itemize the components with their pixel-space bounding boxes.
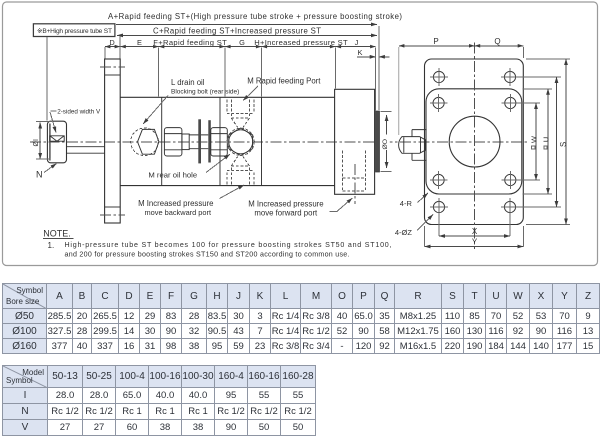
washer 1 (182, 134, 189, 150)
separator disc 2 (208, 120, 211, 162)
svg-text:E: E (137, 38, 142, 47)
hex bolt head (left) (138, 129, 159, 154)
chained dimension arrowheads (105, 45, 111, 49)
svg-text:G: G (239, 38, 245, 47)
dimension line A (116, 23, 377, 25)
rear view: vertical centerline (474, 43, 476, 250)
increased pressure forward port passage (dashed, block) (343, 151, 366, 192)
dimension line K (357, 56, 376, 58)
dimension line C (117, 34, 377, 36)
svg-text:ØO: ØO (382, 139, 389, 150)
svg-text:A+Rapid feeding ST+(High press: A+Rapid feeding ST+(High pressure tube s… (108, 12, 402, 21)
svg-text:J: J (355, 38, 359, 47)
svg-text:M Increased pressure: M Increased pressure (138, 199, 213, 208)
main horizontal centerline (30, 141, 528, 143)
8 bolt holes with crosshairs (433, 71, 444, 82)
svg-text:H+Increased pressure ST: H+Increased pressure ST (254, 38, 348, 47)
cylinder body outline (120, 97, 334, 185)
svg-text:2-sided width V: 2-sided width V (57, 109, 101, 116)
increased pressure backward port passage (dashed, bottom) (227, 157, 254, 185)
nut 2 (211, 128, 228, 156)
svg-text:M rear oil hole: M rear oil hole (148, 171, 197, 180)
svg-text:W: W (529, 136, 538, 143)
extension line for P (left) (398, 47, 400, 135)
drawing border frame (3, 2, 598, 266)
dimension phi-O (386, 115, 388, 168)
svg-text:P: P (433, 37, 438, 46)
dimension W (inner hole rows) (519, 102, 541, 104)
svg-text:X: X (472, 227, 478, 236)
svg-text:NOTE.: NOTE. (43, 228, 71, 238)
svg-text:Blocking bolt (rear side): Blocking bolt (rear side) (171, 88, 239, 95)
separator disc 1 (198, 119, 201, 163)
dimension (outer hole rows) (519, 76, 562, 78)
svg-text:C+Rapid feeding ST+Increased p: C+Rapid feeding ST+Increased pressure ST (153, 26, 321, 35)
svg-text:Y: Y (472, 238, 478, 247)
dimension phi-I (39, 123, 41, 160)
body section lines (162, 97, 262, 185)
rod end nut (2-sided width V) (47, 121, 66, 163)
center bore circle (449, 116, 500, 167)
dimension X (438, 214, 440, 236)
svg-text:move backward port: move backward port (145, 208, 212, 217)
svg-text:Q: Q (494, 37, 500, 46)
svg-text:1.: 1. (48, 241, 55, 250)
rear oil hole bolt (circle+hex) (229, 130, 253, 154)
svg-text:K: K (358, 48, 363, 57)
dimension P Q (399, 45, 524, 47)
drain bolt recess (dashed circle, left) (131, 128, 159, 156)
rear view: outer flange plate (425, 59, 524, 225)
dimension Y (424, 226, 426, 247)
rear port fitting (hex, side view) (412, 130, 427, 161)
svg-text:N: N (36, 170, 43, 180)
svg-text:4-ØZ: 4-ØZ (395, 228, 413, 237)
svg-text:M Increased pressure: M Increased pressure (248, 200, 323, 209)
label box B: high pressure tube ST (33, 24, 115, 37)
dimension U (inner plate) (523, 88, 553, 90)
svg-text:move forward port: move forward port (254, 209, 318, 218)
high pressure tube flange plate (376, 111, 380, 172)
rear booster block (335, 89, 375, 194)
chamfer mark on rod nut (50, 136, 64, 141)
svg-text:High-pressure tube ST becomes: High-pressure tube ST becomes 100 for pr… (65, 241, 392, 249)
svg-text:※B+High pressure tube ST: ※B+High pressure tube ST (37, 28, 112, 35)
svg-text:4-R: 4-R (400, 199, 413, 208)
svg-text:U: U (542, 137, 551, 142)
svg-text:F+Rapid feeding ST: F+Rapid feeding ST (153, 38, 227, 47)
svg-text:and 200 for pressure boosting: and 200 for pressure boosting strokes ST… (65, 251, 350, 259)
chained dimension line D E F G H J (105, 46, 376, 48)
piston rod (67, 147, 105, 154)
front flange plate (side view) (105, 59, 121, 223)
rear view: inner flange plate (426, 89, 522, 194)
svg-text:ØI: ØI (33, 139, 40, 146)
svg-text:S: S (559, 142, 568, 147)
svg-text:L drain oil: L drain oil (171, 78, 205, 87)
extension lines (top dims) (46, 37, 48, 121)
tie rod (189, 135, 208, 149)
nut 1 (164, 128, 182, 156)
rapid feeding port passage (dashed, top) (227, 100, 254, 128)
svg-text:M Rapid feeding Port: M Rapid feeding Port (247, 76, 321, 85)
dimension S (outer plate height) (526, 58, 570, 60)
